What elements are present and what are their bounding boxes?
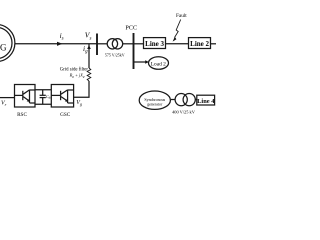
wire bus to T1: [97, 43, 108, 45]
svg-text:Vr: Vr: [1, 101, 7, 107]
resistor grid filter: [87, 68, 91, 81]
wire filter to stator wire: [88, 44, 90, 68]
dc rail bottom: [35, 103, 51, 105]
wire stator: [15, 43, 97, 45]
svg-text:Line 2: Line 2: [190, 40, 209, 48]
IGBT in RSC: [15, 90, 36, 103]
wire rotor V_r: [0, 97, 15, 99]
wire PCC to Load 2: [134, 61, 147, 63]
svg-text:G: G: [0, 42, 7, 52]
transformer T1: [107, 39, 123, 49]
wire T2 to Line 4: [195, 99, 197, 101]
svg-text:Line 4: Line 4: [197, 98, 215, 105]
arrow to Load 2: [145, 60, 149, 64]
load oval Load 2: [149, 57, 169, 70]
svg-text:Load 2: Load 2: [151, 61, 166, 67]
converter box RSC: [15, 85, 36, 108]
svg-text:GSC: GSC: [60, 112, 71, 118]
svg-text:400 V/25 kV: 400 V/25 kV: [172, 110, 196, 115]
wire GSC output: [74, 81, 89, 97]
bus bar B1: [96, 34, 98, 56]
capacitor C_dc: [40, 90, 46, 105]
IGBT in GSC: [51, 90, 73, 103]
line box Line 2: [189, 38, 211, 49]
svg-text:Vg: Vg: [76, 100, 82, 106]
generator G (DFIG): [0, 24, 15, 61]
svg-text:RSC: RSC: [17, 112, 27, 118]
transformer T2: [175, 94, 195, 106]
dc rail top: [35, 89, 51, 91]
svg-text:generator: generator: [147, 101, 163, 106]
bus bar PCC: [133, 33, 135, 69]
line box Line 4: [197, 95, 215, 105]
wire T1 to PCC: [122, 43, 133, 45]
wire sync gen to T2: [171, 99, 175, 101]
line box Line 3: [144, 38, 166, 49]
wire PCC to Line 3: [134, 43, 144, 45]
oval synchronous generator: [139, 91, 170, 109]
wire Line 2 to edge: [211, 43, 216, 45]
svg-text:PCC: PCC: [125, 25, 137, 32]
svg-text:Fault: Fault: [176, 13, 187, 19]
svg-text:575 V/25kV: 575 V/25kV: [105, 53, 125, 58]
svg-text:Line 3: Line 3: [145, 40, 164, 48]
arrow i_g: [87, 45, 91, 49]
arrow i_s: [57, 42, 63, 46]
fault lightning arrow: [173, 20, 181, 42]
wire Line 3 to Line 2: [166, 43, 189, 45]
converter box GSC: [51, 85, 73, 108]
